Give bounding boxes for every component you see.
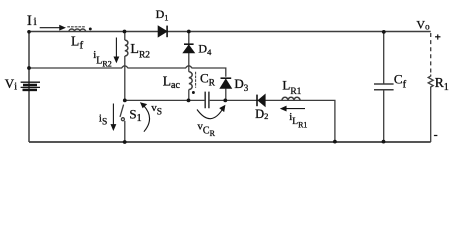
svg-text:iLR2: iLR2	[93, 49, 112, 68]
switch S1 lower terminal circle	[121, 118, 124, 121]
inductor L_ac coil	[189, 72, 192, 90]
wire right output branch solid lower part	[430, 88, 432, 143]
switch S1 blade	[120, 105, 124, 117]
junction dot top rail / D4	[187, 30, 191, 34]
svg-text:LR1: LR1	[282, 77, 301, 97]
svg-text:D2: D2	[255, 107, 268, 121]
diode D3	[220, 80, 231, 89]
wire D4 branch upper	[188, 32, 190, 72]
diode D4	[184, 45, 195, 52]
current arrow i_S	[112, 104, 114, 126]
junction dot D3 / third rail	[223, 99, 227, 103]
wire right output branch dashed upper part	[430, 33, 432, 75]
junction dot top rail / C_f	[382, 30, 386, 34]
junction dot S1 / bottom rail	[123, 140, 127, 144]
svg-text:Cf: Cf	[394, 72, 407, 91]
svg-text:D4: D4	[198, 42, 212, 58]
junction dot left rail / second rail	[27, 66, 31, 70]
wire second rail with crossover hops	[29, 66, 226, 77]
svg-text:S1: S1	[129, 106, 141, 124]
svg-text:Lac: Lac	[163, 74, 181, 91]
wire L_R2 / S1 vertical branch upper	[124, 32, 126, 41]
junction dot L_R1 branch / bottom rail	[333, 140, 337, 144]
svg-text:R1: R1	[435, 75, 449, 93]
svg-text:vS: vS	[151, 102, 162, 118]
svg-text:iS: iS	[99, 112, 107, 127]
inductor L_R1 coil	[282, 97, 300, 100]
wire third rail left of C_R	[125, 99, 205, 101]
svg-text:Vo: Vo	[416, 17, 430, 31]
svg-text:vCR: vCR	[197, 120, 215, 138]
svg-text:D3: D3	[234, 76, 248, 93]
junction dot L_ac / third rail	[187, 99, 191, 103]
inductor L_R2 coil	[125, 40, 128, 56]
capacitor C_f plates	[374, 84, 394, 90]
svg-text:Vi: Vi	[5, 76, 17, 93]
junction dot top rail / L_R2	[123, 30, 127, 34]
wire C_f branch upper stub	[383, 32, 385, 85]
polarity dot of Lf	[89, 27, 92, 30]
wire S1 bottom stub	[124, 121, 126, 142]
wire L_R2 to S1 junction	[124, 56, 126, 100]
inductor Lf core bar	[67, 26, 85, 28]
junction dot S1 / third rail	[123, 99, 127, 103]
inductor Lf coil	[69, 29, 86, 31]
svg-text:LR2: LR2	[130, 42, 150, 61]
diode D2	[258, 95, 265, 106]
svg-text:D1: D1	[156, 7, 169, 23]
voltage arc v_C_R	[197, 108, 223, 119]
current arrow i_L_R2	[115, 38, 117, 59]
polarity dot of L_ac	[192, 91, 195, 94]
svg-text:Ii: Ii	[27, 13, 37, 29]
svg-text:+: +	[435, 31, 441, 43]
wire bottom rail	[29, 141, 431, 143]
inductor L_ac core bar	[195, 72, 197, 88]
wire D3 lower stub	[225, 89, 227, 101]
svg-text:-: -	[434, 128, 438, 142]
junction dot C_f / bottom rail	[382, 140, 386, 144]
svg-text:iLR1: iLR1	[289, 111, 307, 129]
current arrow i_L_R1	[285, 108, 305, 110]
battery Vi symbol	[21, 82, 40, 90]
wire third rail right of C_R to L_R1 corner	[210, 100, 335, 141]
svg-text:Lf: Lf	[71, 34, 84, 52]
voltage arc v_S	[144, 106, 150, 132]
wire top rail	[29, 31, 431, 33]
wire left rail (input branch)	[28, 32, 30, 143]
wire C_f branch lower stub	[383, 90, 385, 142]
current arrow Ii	[40, 27, 61, 29]
wire L_ac bottom stub	[188, 90, 190, 101]
junction dot top-left corner	[27, 30, 31, 34]
svg-text:CR: CR	[200, 71, 216, 89]
resistor R1 zigzag	[428, 75, 433, 88]
capacitor C_R plates	[205, 92, 209, 109]
diode D1	[158, 26, 166, 36]
